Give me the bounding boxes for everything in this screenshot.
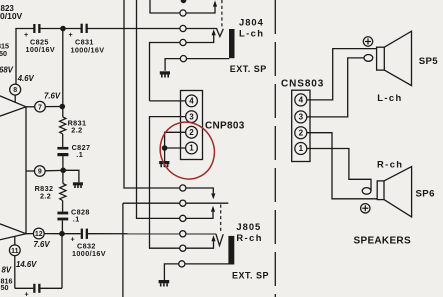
- svg-text:R-ch: R-ch: [377, 159, 403, 170]
- wire: row 4 ground to jack bar: [165, 59, 229, 71]
- svg-text:EXT. SP: EXT. SP: [230, 64, 267, 74]
- svg-text:+: +: [71, 235, 76, 244]
- wire: top-left corner from C823 line down to pin 8: [15, 29, 17, 84]
- pin 4: [295, 94, 307, 106]
- wire: row 1 from top bus x=150: [150, 0, 215, 13]
- + terminal (SP6): [361, 204, 370, 213]
- svg-text:7.6V: 7.6V: [34, 240, 51, 249]
- capacitor (bottom loop, polarized): [33, 284, 40, 293]
- wire: bus vertical x=122.9 (J805 row 2 down to bottom edge): [122, 203, 124, 297]
- svg-text:8V: 8V: [2, 265, 12, 274]
- svg-text:L-ch: L-ch: [377, 92, 402, 103]
- capacitor C832: [81, 229, 88, 239]
- svg-text:+: +: [24, 30, 29, 39]
- pin 1: [186, 142, 198, 154]
- capacitor C825: [33, 24, 40, 33]
- + terminal (SP5): [363, 37, 372, 46]
- jack bar J805: [228, 236, 234, 265]
- wire: bus vertical x=124 (top edge to J805 row 1): [124, 0, 180, 188]
- wire: R-ch line y=233.7 junction to C832: [62, 233, 81, 235]
- svg-text:+: +: [25, 290, 30, 297]
- resistor R832: [60, 184, 66, 201]
- svg-text:1: 1: [189, 144, 194, 153]
- svg-text:1000/16V: 1000/16V: [72, 249, 106, 258]
- pin 1: [295, 143, 307, 155]
- wire: junction down to ground: [164, 148, 166, 161]
- ground (near C827 junction): [73, 182, 83, 188]
- wire: row 5 right arm with up arrow: [186, 241, 214, 248]
- ground (J805): [159, 280, 170, 287]
- arrow up (row 5 toward row 4): [211, 235, 215, 241]
- svg-text:2.2: 2.2: [40, 192, 51, 201]
- wire: x=63 vertical bus (segments): [61, 29, 64, 234]
- capacitor C828: [57, 212, 68, 221]
- svg-text:EXT. SP: EXT. SP: [232, 271, 269, 281]
- wire: pin 1 left to junction: [165, 147, 186, 149]
- wire: pin 9 to junction: [45, 169, 63, 171]
- pin 8 circle: [10, 84, 21, 102]
- switch V contact (J804): [217, 29, 224, 37]
- svg-text:CNS803: CNS803: [281, 79, 324, 90]
- ground (J804): [160, 71, 170, 77]
- svg-text:2: 2: [189, 128, 194, 137]
- wire: pin 3 left, down to J805 row 5: [150, 117, 186, 249]
- svg-text:2.2: 2.2: [71, 125, 82, 134]
- dashed actuator line (J804): [221, 0, 223, 27]
- wire: junction to ground stub: [63, 170, 79, 182]
- svg-text:2: 2: [299, 128, 304, 137]
- capacitor C831: [81, 24, 88, 33]
- pin 3: [295, 111, 307, 123]
- arrow up (row 3 toward row 2): [211, 206, 215, 212]
- resistor R831: [60, 117, 66, 134]
- wire: CNS pin 3 to SP5 - terminal: [307, 58, 364, 117]
- CNP803 connector: [181, 91, 203, 160]
- - terminal eyelet (SP5): [364, 55, 373, 62]
- svg-text:7: 7: [38, 104, 42, 111]
- svg-text:7.6V: 7.6V: [44, 91, 61, 100]
- pin 9 circle: [35, 166, 46, 177]
- pin 2: [295, 127, 307, 139]
- svg-text:68V: 68V: [0, 66, 14, 75]
- wire: row 3 right arm with up arrow: [186, 212, 213, 219]
- arrow up (row 1): [213, 0, 217, 6]
- svg-text:R-ch: R-ch: [236, 232, 262, 243]
- wire: J805 row 2: [123, 202, 228, 204]
- wire: pin 12 to junction: [44, 233, 62, 235]
- pin 3: [186, 111, 198, 123]
- svg-text:SP6: SP6: [416, 189, 435, 200]
- wire: CNS pin 4 to SP5 + terminal: [307, 49, 377, 100]
- svg-text:J805: J805: [236, 221, 261, 232]
- svg-text:J804: J804: [239, 16, 264, 27]
- svg-text:1: 1: [299, 144, 304, 153]
- svg-text:11: 11: [11, 248, 19, 255]
- svg-text:4: 4: [189, 97, 194, 106]
- svg-text:8: 8: [13, 87, 17, 94]
- wire: row 3 from bus x=149.5 down to CNP pin 4: [150, 34, 214, 101]
- red highlight ellipse: [151, 113, 224, 188]
- svg-text:4: 4: [299, 96, 304, 105]
- wire: pin 11 down and bottom loop to junction x=62: [15, 234, 62, 289]
- switch V contact (J805): [216, 234, 223, 246]
- node: junction at (63.2,170.3): [60, 168, 66, 174]
- pin 4: [186, 95, 198, 107]
- pin 11 circle: [9, 245, 20, 256]
- wire: bus vertical x=136.5 (top edge to J805 row 3): [137, 0, 180, 218]
- wire: pin 4 to x=149.5: [150, 100, 186, 102]
- node: partial contact dot at top edge: [181, 0, 187, 3]
- wire: triangle bottom edge stub to pin 11: [14, 237, 16, 245]
- dashed actuator line (J805): [220, 205, 222, 232]
- contact circles J805: [179, 185, 186, 267]
- svg-text:L-ch: L-ch: [239, 28, 264, 39]
- svg-text:.1: .1: [73, 215, 80, 224]
- wire: feedback line x=26 from tip down to lower tip: [25, 107, 27, 234]
- svg-text:3: 3: [299, 113, 304, 122]
- svg-text:CNP803: CNP803: [205, 121, 245, 132]
- wire: stub to pin 9: [26, 170, 35, 172]
- svg-text:4.6V: 4.6V: [17, 74, 35, 83]
- svg-text:100/16V: 100/16V: [26, 45, 56, 54]
- svg-text:+: +: [69, 30, 74, 39]
- svg-text:50: 50: [1, 283, 9, 292]
- section divider (chain line): [274, 0, 276, 297]
- op-amp U1 (top triangle, cut at left edge): [0, 96, 26, 116]
- wire: tip to pin 12: [26, 233, 33, 235]
- svg-text:SP5: SP5: [419, 56, 439, 67]
- wire: between C825 and C831: [40, 28, 80, 30]
- jack bar J804: [229, 29, 235, 58]
- arrow up (row 3 toward row 2): [212, 29, 216, 35]
- svg-text:14.6V: 14.6V: [16, 260, 37, 269]
- wire: row 1 right arm with down arrow: [186, 188, 213, 193]
- wire: triangle tip to pin 7: [26, 106, 35, 108]
- pin 2: [186, 126, 198, 138]
- svg-text:50: 50: [0, 49, 7, 58]
- wire: CNS pin 2 to SP6 + terminal: [307, 133, 377, 199]
- node: junction on y=28.5 wire at x=63: [60, 26, 66, 32]
- svg-text:1000/16V: 1000/16V: [71, 45, 105, 54]
- wire: pin 7 to junction: [45, 106, 62, 108]
- speaker SP6: [377, 167, 411, 217]
- pin 7 circle: [35, 101, 46, 112]
- arrow down (row 1 toward row 2): [211, 193, 215, 199]
- wire: C832 to J805 row-4 V contact: [88, 233, 216, 235]
- svg-text:3: 3: [189, 112, 194, 121]
- wire: main L-ch line y=28.5 (segment left of C825): [16, 28, 33, 30]
- node: junction at (62.3,106.5): [60, 104, 66, 110]
- capacitor C827: [57, 147, 68, 156]
- wire: CNS pin 1 to SP6 - terminal: [307, 149, 371, 191]
- CNS803 connector: [292, 90, 310, 161]
- wire: C831 to J804 row-2 V contact: [88, 28, 217, 30]
- speaker SP5: [377, 31, 412, 85]
- wire: row 6 from ground to jack bar: [164, 264, 228, 280]
- ground (CNP pin1): [159, 161, 169, 167]
- node: junction (pins 1-2 tied): [162, 145, 168, 151]
- wire: pin 2 left and down to junction: [165, 132, 186, 148]
- svg-text:0/10V: 0/10V: [0, 11, 23, 21]
- svg-text:9: 9: [38, 169, 42, 176]
- - terminal eyelet (SP6): [362, 188, 371, 195]
- contact circles J804: [180, 10, 187, 62]
- svg-text:.1: .1: [76, 150, 83, 159]
- op-amp U2 (bottom triangle, cut at left edge): [0, 224, 26, 240]
- node: junction at (62,233.7): [59, 231, 65, 237]
- svg-text:12: 12: [35, 231, 43, 238]
- svg-text:SPEAKERS: SPEAKERS: [354, 236, 411, 247]
- pin 12 circle: [33, 228, 44, 239]
